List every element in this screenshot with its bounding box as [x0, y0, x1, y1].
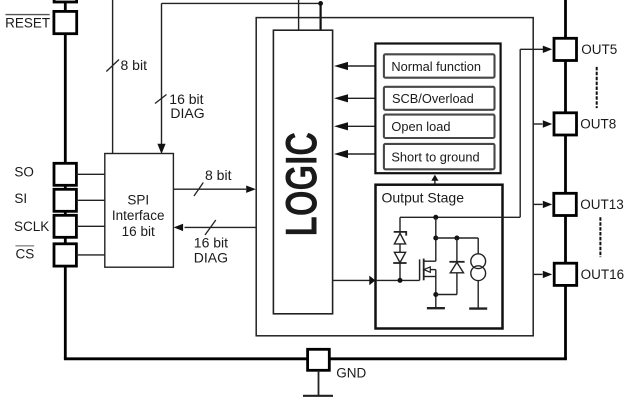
wire thick left chain CS down to GND bus — [64, 266, 67, 359]
bus tick slash on DIAG vertical — [155, 95, 167, 104]
zener D2 triangle — [394, 252, 405, 262]
status arrow Short to ground to LOGIC — [347, 153, 375, 155]
freewheel diode wire bottom — [456, 273, 458, 295]
wire 16 bit DIAG horizontal from outer box to SPI — [185, 226, 257, 228]
wire chain OUT8-OUT13 — [564, 135, 567, 193]
wire OUT13 arrow — [533, 203, 542, 205]
current source circle 2 — [471, 266, 486, 281]
pin pad above RESET (cropped at top) — [54, 0, 77, 2]
svg-text:16 bit: 16 bit — [194, 234, 228, 250]
wire OUT5 arrow — [520, 48, 543, 50]
svg-text:8 bit: 8 bit — [121, 57, 148, 73]
wire 8 bit horizontal SPI to outer box — [173, 188, 246, 190]
pin pad SCLK — [54, 215, 76, 237]
ground bar current source — [469, 307, 487, 309]
wire 16 bit DIAG vertical into SPI top — [161, 3, 163, 146]
arrowhead into output stage — [369, 276, 375, 286]
transistor MOSFET gate electrode — [419, 259, 421, 280]
wire stub between top pad and RESET pad — [64, 2, 67, 12]
svg-text:SCB/Overload: SCB/Overload — [392, 91, 474, 106]
wire node horizontal to diode and current source — [436, 237, 478, 239]
wire thick GND bus — [64, 357, 567, 360]
svg-text:OUT8: OUT8 — [580, 116, 616, 131]
svg-text:16 bit: 16 bit — [122, 224, 155, 239]
wire OUT rail up — [519, 49, 521, 217]
wire vertical into LOGIC top from image top — [298, 0, 300, 31]
svg-text:8 bit: 8 bit — [205, 167, 232, 183]
svg-text:Open load: Open load — [391, 119, 450, 134]
svg-text:SI: SI — [14, 191, 27, 206]
arrowhead left into SPI right edge — [174, 224, 184, 231]
wire drain branch down — [435, 217, 437, 261]
node dot drain top rail — [433, 215, 438, 220]
svg-text:LOGIC: LOGIC — [278, 132, 327, 236]
node junction dot top — [318, 1, 323, 6]
box Normal function — [384, 54, 495, 77]
wire stub SCLK-CS — [64, 237, 67, 244]
pin pad OUT16 — [554, 263, 577, 285]
pin pad OUT13 — [554, 193, 577, 215]
pin pad SI — [54, 189, 76, 211]
wire SO pad to SPI block — [76, 173, 104, 175]
current source circle 1 — [471, 254, 486, 269]
wire gate inside output stage — [376, 279, 420, 281]
wire MOSFET source down — [435, 277, 437, 309]
wire junction down into LOGIC top — [320, 3, 322, 31]
pin pad SO — [54, 163, 76, 185]
current source wire bottom — [477, 281, 479, 308]
pin pad CS — [54, 244, 76, 266]
wire zener stack to gate line — [399, 263, 401, 280]
node dot freewheel diode top — [454, 236, 459, 241]
status arrow SCB/Overload to LOGIC — [347, 97, 375, 99]
node dot gate/zener — [398, 278, 403, 283]
current source wire top — [477, 238, 479, 254]
wire CS pad to SPI block — [76, 254, 104, 256]
svg-text:DIAG: DIAG — [170, 105, 204, 121]
bus tick slash on 8 bit vertical — [106, 60, 119, 72]
dashed line OUT5-OUT8 — [596, 67, 598, 108]
pin pad RESET — [54, 11, 77, 33]
wire chain OUT13-OUT16 — [564, 216, 567, 264]
transistor MOSFET body arrow — [430, 269, 436, 271]
svg-text:SPI: SPI — [127, 193, 149, 208]
svg-text:CS: CS — [16, 247, 35, 262]
block status group box — [375, 44, 500, 174]
wire between zeners — [399, 244, 401, 252]
label RESET with overline — [6, 14, 50, 16]
svg-text:OUT16: OUT16 — [581, 267, 625, 282]
wire output stage top rail — [400, 216, 520, 218]
svg-text:OUT13: OUT13 — [580, 197, 624, 212]
pin pad OUT8 — [554, 113, 577, 135]
wire stub SI-SCLK — [64, 211, 67, 215]
wire thick OUT chain from top — [564, 0, 567, 38]
arrowhead right into outer box — [246, 186, 256, 193]
wire chain OUT5-OUT8 — [564, 61, 567, 113]
wire diode bottom to source node — [436, 294, 457, 296]
ground bar MOSFET source — [427, 307, 445, 309]
node dot drain branch — [433, 236, 438, 241]
box SCB/Overload — [384, 87, 495, 110]
arrow Output Stage up into status group — [434, 180, 436, 185]
transistor MOSFET channel bar — [423, 259, 425, 281]
wire SCLK pad to SPI block — [76, 225, 104, 227]
block SPI Interface 16 bit — [105, 154, 174, 268]
freewheel diode wire top — [456, 238, 458, 262]
wire OUT16 arrow — [533, 273, 542, 275]
wire top bus horizontal from DIAG line to junction — [162, 2, 321, 4]
pin pad GND — [308, 349, 330, 370]
svg-text:Short to ground: Short to ground — [391, 149, 479, 164]
status arrow Normal function to LOGIC — [347, 65, 375, 67]
bus tick slash on 16 bit return — [205, 220, 216, 235]
svg-text:Normal function: Normal function — [391, 59, 481, 74]
wire chain OUT16 down to GND bus — [564, 285, 567, 358]
wire stub SO-SI — [64, 185, 67, 189]
svg-text:SO: SO — [14, 164, 34, 179]
pin pad OUT5 — [554, 38, 577, 60]
wire GND tail — [318, 370, 320, 395]
svg-text:OUT5: OUT5 — [581, 42, 617, 57]
wire SI pad to SPI block — [76, 199, 104, 201]
zener D1 cathode bar with hook — [394, 232, 407, 236]
arrowhead down into SPI top — [157, 144, 165, 154]
wire thick left chain RESET down to SO pad — [64, 34, 67, 164]
freewheel diode cathode bar — [450, 262, 463, 272]
wire OUT8 arrow — [533, 123, 542, 125]
zener D1 triangle — [394, 233, 405, 244]
bus tick slash on 8 bit horizontal — [194, 183, 203, 197]
ground symbol bar — [303, 395, 333, 397]
freewheel diode triangle — [449, 261, 464, 263]
block LOGIC — [273, 30, 332, 314]
svg-text:Interface: Interface — [112, 208, 165, 223]
box Open load — [384, 115, 495, 138]
svg-text:DIAG: DIAG — [194, 249, 228, 265]
label CS with overline — [15, 245, 34, 247]
node dot source — [433, 292, 438, 297]
transistor MOSFET drain stub — [424, 260, 436, 262]
svg-text:GND: GND — [336, 366, 366, 381]
svg-text:SCLK: SCLK — [14, 219, 49, 234]
svg-text:RESET: RESET — [5, 15, 50, 30]
wire 8 bit vertical line into SPI top — [112, 0, 114, 154]
transistor MOSFET source stub — [424, 276, 436, 278]
dashed line OUT13-OUT16 — [599, 217, 601, 257]
box Short to ground — [384, 144, 495, 169]
block Output Stage — [376, 185, 503, 329]
svg-text:Output Stage: Output Stage — [382, 190, 465, 206]
wire gate from LOGIC to output stage — [333, 279, 370, 281]
zener D2 cathode bar — [393, 262, 406, 264]
outer box — [256, 18, 533, 336]
status arrow Open load to LOGIC — [347, 125, 375, 127]
zener stack wire from top rail — [399, 217, 401, 233]
